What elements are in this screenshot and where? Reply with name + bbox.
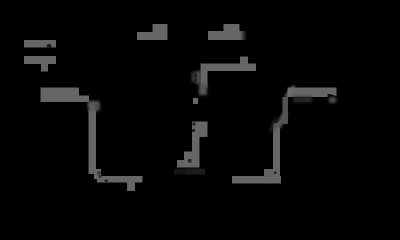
value label "5V" A [137, 32, 168, 40]
current arrow blur [196, 71, 201, 84]
wire top vertical drop [201, 71, 208, 88]
transistor Q1 emitter diagonal step 3 [177, 160, 184, 168]
corner dot right [274, 171, 277, 174]
transistor Q1 collector stub [193, 98, 198, 104]
capacitor C1 plate 1 [24, 40, 56, 48]
wire top horizontal [201, 63, 257, 70]
label smudge under wire [293, 97, 312, 103]
capacitor C1 plate 2 [24, 56, 56, 64]
wire top stub up [240, 56, 248, 63]
wire right corner step [264, 169, 274, 178]
capacitor C1 polarity dot [47, 44, 52, 48]
value label "5V" B [208, 31, 241, 40]
wire left horizontal step [78, 95, 89, 102]
wire left corner [94, 169, 101, 179]
corner pin dots [98, 172, 101, 175]
wire right vertical lower [273, 123, 280, 178]
label B fade right [240, 31, 247, 40]
junction dot right-top [328, 94, 332, 98]
wire right vertical upper dim [282, 97, 288, 124]
transistor Q1 emitter diagonal step 1 [192, 137, 200, 168]
wire bottom-left horizontal [97, 176, 143, 183]
transistor Q1 arrow dot [188, 159, 191, 162]
transistor Q1 body block [192, 122, 208, 137]
faint diagonal tail [270, 118, 276, 132]
ground stub [127, 182, 135, 191]
capacitor C1 lead stub [41, 64, 48, 71]
terminal blob right [327, 95, 339, 105]
wire left vertical [89, 110, 97, 174]
value label "1k" left [41, 87, 79, 102]
resistor R1 dark body [174, 169, 205, 175]
current arrow dark dots [194, 74, 197, 77]
node junction blur [88, 101, 99, 107]
wire right jog transition [274, 113, 288, 128]
wire right-top horizontal [288, 88, 337, 97]
junction dot bottom-left [105, 179, 108, 182]
wire bottom-right horizontal [232, 176, 281, 184]
bright link nub [284, 86, 296, 97]
transistor Q1 body dots [193, 123, 196, 126]
wire top vertical dim extension [199, 84, 207, 95]
transistor Q1 emitter diagonal step 2 [184, 152, 192, 168]
